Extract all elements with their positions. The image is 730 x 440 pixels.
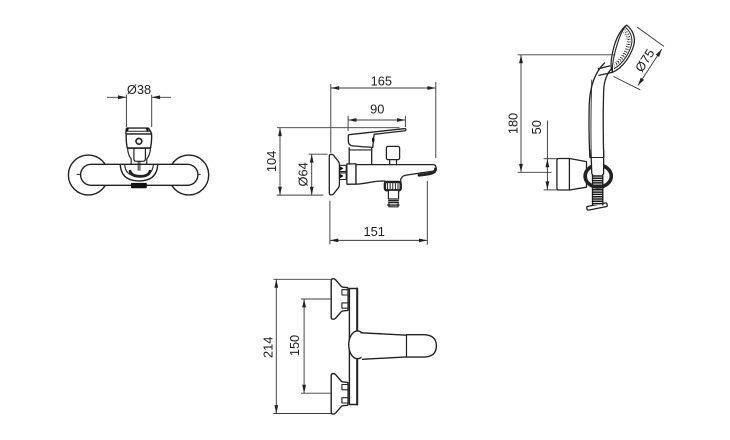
handle inner line	[590, 80, 593, 150]
dim 180	[518, 55, 616, 173]
90 left arrowhead	[348, 118, 356, 122]
165 left arrowhead	[331, 86, 339, 90]
104 top arrowhead	[278, 128, 282, 136]
svg-text:180: 180	[506, 113, 521, 134]
Ø64 dimension line	[311, 154, 313, 195]
svg-text:165: 165	[371, 73, 392, 88]
svg-text:90: 90	[370, 101, 384, 116]
svg-text:214: 214	[260, 337, 275, 358]
left escutcheon circle	[68, 155, 108, 195]
dim 104	[277, 128, 400, 195]
dim 50	[544, 121, 558, 190]
dim 214	[273, 279, 330, 413]
lever shadow blob	[372, 138, 375, 143]
head face-plate edge arc	[609, 24, 626, 72]
150 bottom arrowhead	[302, 385, 306, 393]
handle body block	[126, 134, 151, 148]
Ø75 lower extension	[614, 77, 641, 90]
union nut lower notch	[340, 174, 344, 178]
lever handle	[348, 129, 406, 148]
main body with spout	[356, 165, 436, 185]
left centre tick	[77, 173, 81, 175]
svg-text:Ø64: Ø64	[295, 162, 310, 186]
svg-text:151: 151	[364, 224, 385, 239]
outlet band	[389, 199, 399, 202]
holder cone	[557, 159, 587, 191]
Ø75 dimension line	[638, 49, 662, 85]
151 right extension	[426, 181, 428, 245]
165 left extension	[330, 84, 332, 153]
wall flange	[329, 154, 339, 195]
svg-text:150: 150	[287, 335, 302, 356]
dim 151	[330, 181, 427, 245]
Ø38 left arrow leader	[107, 96, 126, 98]
hose ribbed section	[593, 174, 603, 205]
holder ring	[585, 165, 611, 187]
lever top trapezoid	[126, 128, 152, 134]
valve column	[347, 164, 356, 184]
lower flange nut 1	[342, 385, 347, 390]
union nut upper	[339, 165, 346, 171]
165 right arrowhead	[427, 86, 435, 90]
handle joint line 1	[598, 66, 610, 69]
90 left extension	[347, 116, 349, 131]
lever top band line	[126, 130, 151, 132]
50 dimension line	[546, 121, 548, 190]
spout dome thick arc	[130, 171, 150, 176]
150 top extension	[301, 298, 331, 300]
214 bottom extension	[273, 413, 330, 415]
104 dimension line	[279, 128, 281, 195]
151 right arrowhead	[419, 239, 427, 243]
neck waist left	[128, 149, 132, 165]
cartridge collar right line	[371, 148, 373, 164]
214 dimension line	[275, 279, 277, 413]
Ø38 right arrowhead	[152, 95, 160, 99]
151 left arrowhead	[330, 239, 338, 243]
180 dimension line	[520, 55, 522, 173]
50 bottom extension	[544, 189, 558, 191]
104/Ø64 bottom extension	[277, 194, 324, 196]
151 left extension	[329, 201, 331, 245]
neck waist right	[147, 149, 151, 165]
lever band left dark corner	[126, 128, 129, 131]
handle nut top line	[591, 157, 604, 159]
right escutcheon circle	[169, 155, 209, 195]
214 bottom arrowhead	[274, 405, 278, 413]
dim Ø38	[107, 95, 171, 127]
centre stem	[138, 161, 140, 170]
151 dimension line	[330, 239, 427, 241]
150 bottom extension	[301, 392, 331, 394]
spout opening thick arc	[419, 169, 436, 175]
150 dimension line	[303, 299, 305, 393]
180 bottom extension	[518, 171, 552, 173]
head rim arc	[614, 28, 636, 72]
upper flange nut 2	[342, 303, 347, 308]
cartridge collar top line	[349, 149, 372, 151]
lever end cap	[406, 335, 436, 357]
180 bottom arrowhead	[519, 164, 523, 172]
dim Ø64	[309, 154, 328, 195]
dim 90	[348, 116, 405, 131]
104 top extension	[277, 127, 400, 129]
214 top arrowhead	[274, 279, 278, 287]
lever edges	[361, 333, 406, 360]
90 right arrowhead	[397, 118, 405, 122]
cartridge blob	[349, 331, 367, 359]
handle hole	[136, 138, 142, 144]
180 top extension	[518, 54, 616, 56]
214 top extension	[273, 278, 330, 280]
handle lower bar edges	[591, 150, 604, 174]
svg-text:50: 50	[529, 120, 544, 134]
dim 150	[301, 299, 331, 393]
165 dimension line	[331, 87, 436, 89]
50 top extension	[544, 158, 558, 160]
Ø38 right arrow leader	[152, 96, 171, 98]
shower head group	[607, 23, 638, 75]
90 right extension	[404, 116, 406, 127]
Ø38 right extension line	[151, 95, 153, 127]
upper flange (top view)	[331, 279, 348, 320]
lever taper (top view)	[360, 333, 407, 360]
lower flange (top view)	[331, 374, 348, 415]
Ø38 left arrowhead	[118, 95, 126, 99]
165 right extension	[435, 82, 437, 158]
lever band right dark corner	[146, 128, 149, 131]
Ø64 top arrowhead	[310, 154, 314, 162]
diverter knob	[386, 146, 399, 159]
body bar vertical	[349, 289, 357, 405]
holder joint line	[568, 159, 570, 191]
svg-text:104: 104	[264, 151, 279, 172]
shower handle	[589, 63, 613, 158]
Ø64 top extension	[309, 153, 328, 155]
right centre tick	[196, 173, 200, 175]
dim 165	[331, 82, 436, 158]
90 dimension line	[348, 119, 405, 121]
spout dome inner arc	[125, 165, 154, 177]
outlet cylinder	[388, 190, 398, 199]
Ø75 upper arrowhead	[656, 49, 662, 57]
outlet tip	[389, 203, 398, 207]
handle joint line 2	[599, 72, 613, 75]
Ø38 left extension line	[125, 95, 127, 127]
50 bottom arrowhead	[546, 181, 550, 189]
Ø75 lower arrowhead	[638, 78, 644, 86]
union nut lower	[339, 173, 346, 180]
head spray band	[614, 29, 633, 68]
upper flange nut 1	[342, 290, 347, 295]
Ø64 bottom arrowhead	[310, 187, 314, 195]
shower outlet ribbed nut	[385, 182, 401, 190]
dim Ø75	[614, 27, 665, 90]
nut ribs	[388, 183, 398, 189]
handle collar line	[127, 147, 150, 149]
body bar	[81, 164, 198, 185]
bar thick right edge	[356, 289, 358, 405]
lower flange nut 2	[342, 398, 347, 403]
cartridge collar left line	[348, 148, 350, 164]
handle lower bar	[591, 150, 604, 174]
Ø75 upper extension	[637, 27, 664, 46]
outlet tip lip	[388, 204, 399, 206]
hose trumpet end	[587, 203, 608, 211]
diverter stem	[390, 160, 397, 165]
neck inner rect	[134, 149, 146, 161]
150 top arrowhead	[302, 299, 306, 307]
head outer lens	[607, 23, 638, 75]
lever joint line	[405, 335, 407, 357]
spout dome outer arc	[120, 165, 157, 181]
union nut upper notch	[340, 166, 344, 170]
svg-text:Ø38: Ø38	[127, 82, 151, 97]
50 top arrowhead	[546, 159, 550, 167]
spout outlet black rectangle	[131, 183, 147, 188]
180 top arrowhead	[519, 55, 523, 63]
104 bottom arrowhead	[278, 187, 282, 195]
